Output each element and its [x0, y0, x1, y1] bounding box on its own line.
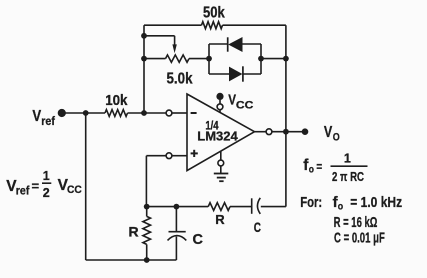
svg-text:2 π RC: 2 π RC [332, 170, 364, 184]
svg-text:1: 1 [43, 169, 50, 183]
svg-text:1: 1 [344, 151, 351, 165]
svg-text:CC: CC [236, 99, 253, 111]
svg-text:ref: ref [16, 186, 30, 198]
svg-text:R: R [129, 224, 139, 240]
svg-text:o: o [338, 200, 343, 212]
svg-text:=: = [316, 159, 322, 174]
svg-text:C: C [193, 232, 204, 248]
svg-text:C = 0.01 μF: C = 0.01 μF [334, 229, 385, 246]
svg-text:ref: ref [41, 116, 55, 128]
svg-text:C: C [254, 220, 261, 235]
svg-text:LM324: LM324 [197, 128, 238, 143]
svg-text:O: O [333, 131, 340, 143]
svg-text:CC: CC [67, 184, 82, 196]
svg-text:R: R [215, 212, 225, 227]
svg-text:V: V [228, 92, 236, 109]
svg-text:For:: For: [300, 194, 322, 211]
svg-text:o: o [309, 163, 314, 175]
svg-text:5.0k: 5.0k [167, 70, 193, 87]
svg-text:50k: 50k [203, 5, 225, 22]
svg-text:= 1.0 kHz: = 1.0 kHz [350, 194, 402, 211]
svg-text:=: = [32, 179, 40, 194]
svg-text:V: V [324, 124, 333, 141]
svg-text:10k: 10k [105, 93, 128, 109]
svg-text:2: 2 [43, 186, 50, 200]
